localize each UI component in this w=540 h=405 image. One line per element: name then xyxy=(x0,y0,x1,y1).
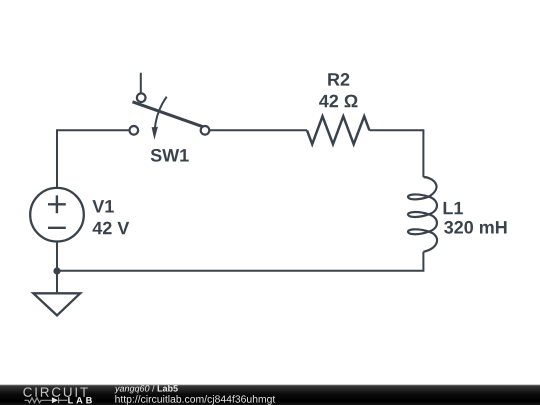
CircuitLab logo text LAB xyxy=(68,397,92,403)
label R2 xyxy=(328,73,349,86)
wire left vertical (V1 top to top wire) xyxy=(56,130,58,188)
node junction dot xyxy=(53,267,60,274)
CircuitLab logo text CIRCUIT xyxy=(23,387,87,396)
switch SW1 toggle arc xyxy=(155,97,167,129)
switch SW1 left terminal circle xyxy=(130,126,139,135)
CircuitLab logo diode triangle xyxy=(52,397,58,403)
footer url line xyxy=(115,395,275,405)
wire resistor to top-right corner xyxy=(369,130,423,177)
footer author line xyxy=(114,385,177,393)
switch SW1 top terminal circle xyxy=(137,93,146,102)
wire inductor to bottom-right corner xyxy=(57,252,423,271)
label SW1 xyxy=(151,149,189,162)
V1 minus sign xyxy=(48,227,66,229)
ground symbol triangle xyxy=(33,293,80,315)
label R2 value 42 ohm xyxy=(319,95,357,108)
switch SW1 arrowhead xyxy=(152,127,158,140)
switch SW1 stub wire xyxy=(140,73,142,94)
resistor R2 zigzag xyxy=(307,116,369,144)
label V1 value 42 V xyxy=(93,222,130,235)
switch SW1 right terminal circle xyxy=(201,126,210,135)
inductor L1 coil xyxy=(408,177,437,252)
label L1 value 320 mH xyxy=(444,221,506,234)
wire V1 bottom to node xyxy=(56,242,58,271)
label L1 xyxy=(444,202,463,214)
voltage source V1 circle xyxy=(30,188,84,242)
wire top-left horizontal xyxy=(57,130,129,131)
V1 plus sign xyxy=(48,195,66,213)
footer bar xyxy=(0,384,540,385)
ground stub wire xyxy=(56,271,58,293)
label V1 xyxy=(92,200,113,212)
CircuitLab logo squiggle wire xyxy=(24,397,67,403)
switch SW1 blade xyxy=(133,102,203,127)
wire switch to resistor xyxy=(209,129,307,131)
